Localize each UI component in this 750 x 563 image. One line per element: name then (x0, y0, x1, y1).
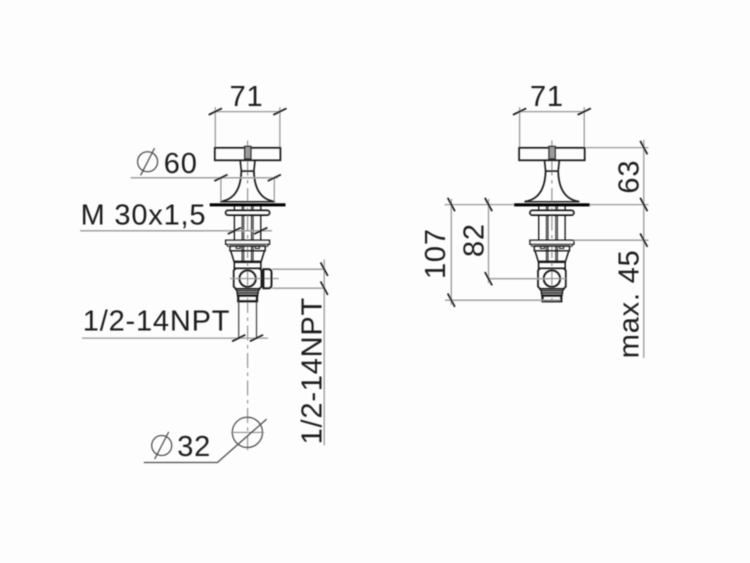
valve body (538, 268, 566, 289)
svg-text:107: 107 (420, 228, 452, 279)
label 107 (420, 228, 452, 279)
label dia 60 (138, 148, 198, 180)
dimension dia60 extension lines (221, 178, 274, 202)
svg-text:1/2-14NPT: 1/2-14NPT (297, 297, 329, 444)
circle crosshair (231, 431, 264, 433)
inlet pipe (238, 301, 240, 338)
svg-text:max. 45: max. 45 (614, 249, 646, 358)
side outlet connector (262, 271, 264, 287)
handle bar (519, 148, 585, 161)
dimension dia60 leader line (131, 177, 278, 179)
bottom band (541, 291, 562, 293)
valve neck band (539, 262, 566, 268)
outlet dim leaders (272, 269, 325, 288)
bottom collar (543, 296, 562, 302)
shank thread lines (233, 206, 235, 240)
svg-text:60: 60 (164, 148, 198, 180)
dim line 107 vertical (450, 199, 452, 305)
svg-text:32: 32 (177, 431, 211, 463)
taper section (535, 251, 539, 262)
handle bar (215, 148, 281, 161)
outlet dim ticks (321, 263, 328, 295)
bottom collar (238, 296, 257, 302)
taper section (231, 251, 235, 262)
ticks 82 (485, 198, 492, 286)
M30 ticks (228, 228, 268, 234)
valve side view (513, 81, 591, 301)
valve front view (209, 81, 287, 450)
dim line 82 vertical (488, 199, 490, 283)
collar ring (530, 211, 574, 216)
valve center extension line (489, 278, 550, 280)
NPT ticks (232, 335, 263, 341)
tick right 71 (273, 108, 286, 114)
flange (530, 240, 574, 244)
svg-text:63: 63 (614, 160, 646, 194)
svg-text:71: 71 (230, 81, 264, 113)
flange extension line (574, 239, 649, 241)
side outlet body (263, 269, 271, 288)
svg-text:71: 71 (530, 81, 564, 113)
dimension 71 line (518, 111, 585, 113)
dim line 63 / max45 vertical (643, 140, 645, 358)
plate level extension lines (445, 204, 649, 206)
ticks 107 (448, 198, 455, 307)
outlet dim vertical line (323, 260, 325, 446)
tick max45 (640, 234, 647, 247)
label M 30x1,5 (81, 200, 207, 232)
ticks 63 (640, 141, 647, 211)
bell skirt (525, 171, 546, 202)
tick left 71 (513, 108, 526, 114)
bottom extension line (445, 299, 561, 301)
centerline (vertical axis) (247, 141, 249, 161)
svg-text:82: 82 (458, 223, 490, 257)
M30 leader line (80, 230, 272, 232)
neck (240, 160, 241, 171)
tick left 71 (209, 108, 222, 114)
centerline (vertical axis) (551, 141, 553, 161)
handle front grip (549, 146, 555, 159)
bore crosshair (538, 278, 566, 280)
dimension 71 extension lines (519, 107, 521, 147)
valve body (234, 268, 262, 289)
base plate (210, 203, 286, 206)
collar ring (226, 211, 270, 216)
stem lines (545, 246, 547, 262)
tick right 71 (578, 108, 591, 114)
bell skirt (220, 171, 241, 202)
dia32 leader (144, 419, 267, 462)
label 1/2-14NPT horizontal (83, 306, 230, 338)
label 82 (458, 223, 490, 257)
stepped block (534, 246, 569, 251)
base plate (514, 203, 590, 206)
svg-text:M 30x1,5: M 30x1,5 (81, 200, 207, 232)
bore crosshair (230, 278, 279, 280)
label max. 45 (614, 249, 646, 358)
dimension 71 extension lines (214, 107, 216, 147)
label 63 (614, 160, 646, 194)
NPT leader line (82, 337, 268, 339)
bottom taper (235, 289, 237, 291)
dimension 71 line (214, 111, 281, 113)
bottom taper (540, 289, 542, 291)
bottom band (237, 291, 258, 293)
svg-text:1/2-14NPT: 1/2-14NPT (83, 306, 230, 338)
stem lines (241, 246, 243, 262)
valve bore circle (544, 270, 560, 286)
stepped block (230, 246, 265, 251)
valve neck band (234, 262, 261, 268)
hole circle dia32 (232, 417, 262, 447)
shank thread lines (538, 206, 540, 240)
valve bore circle (239, 270, 255, 286)
handle front grip (245, 146, 251, 159)
label dia 32 (152, 431, 211, 463)
neck (545, 160, 546, 171)
label 1/2-14NPT rotated (297, 297, 329, 444)
flange (226, 240, 270, 244)
handle top extension line (586, 147, 649, 149)
dia60 ticks (214, 175, 281, 181)
